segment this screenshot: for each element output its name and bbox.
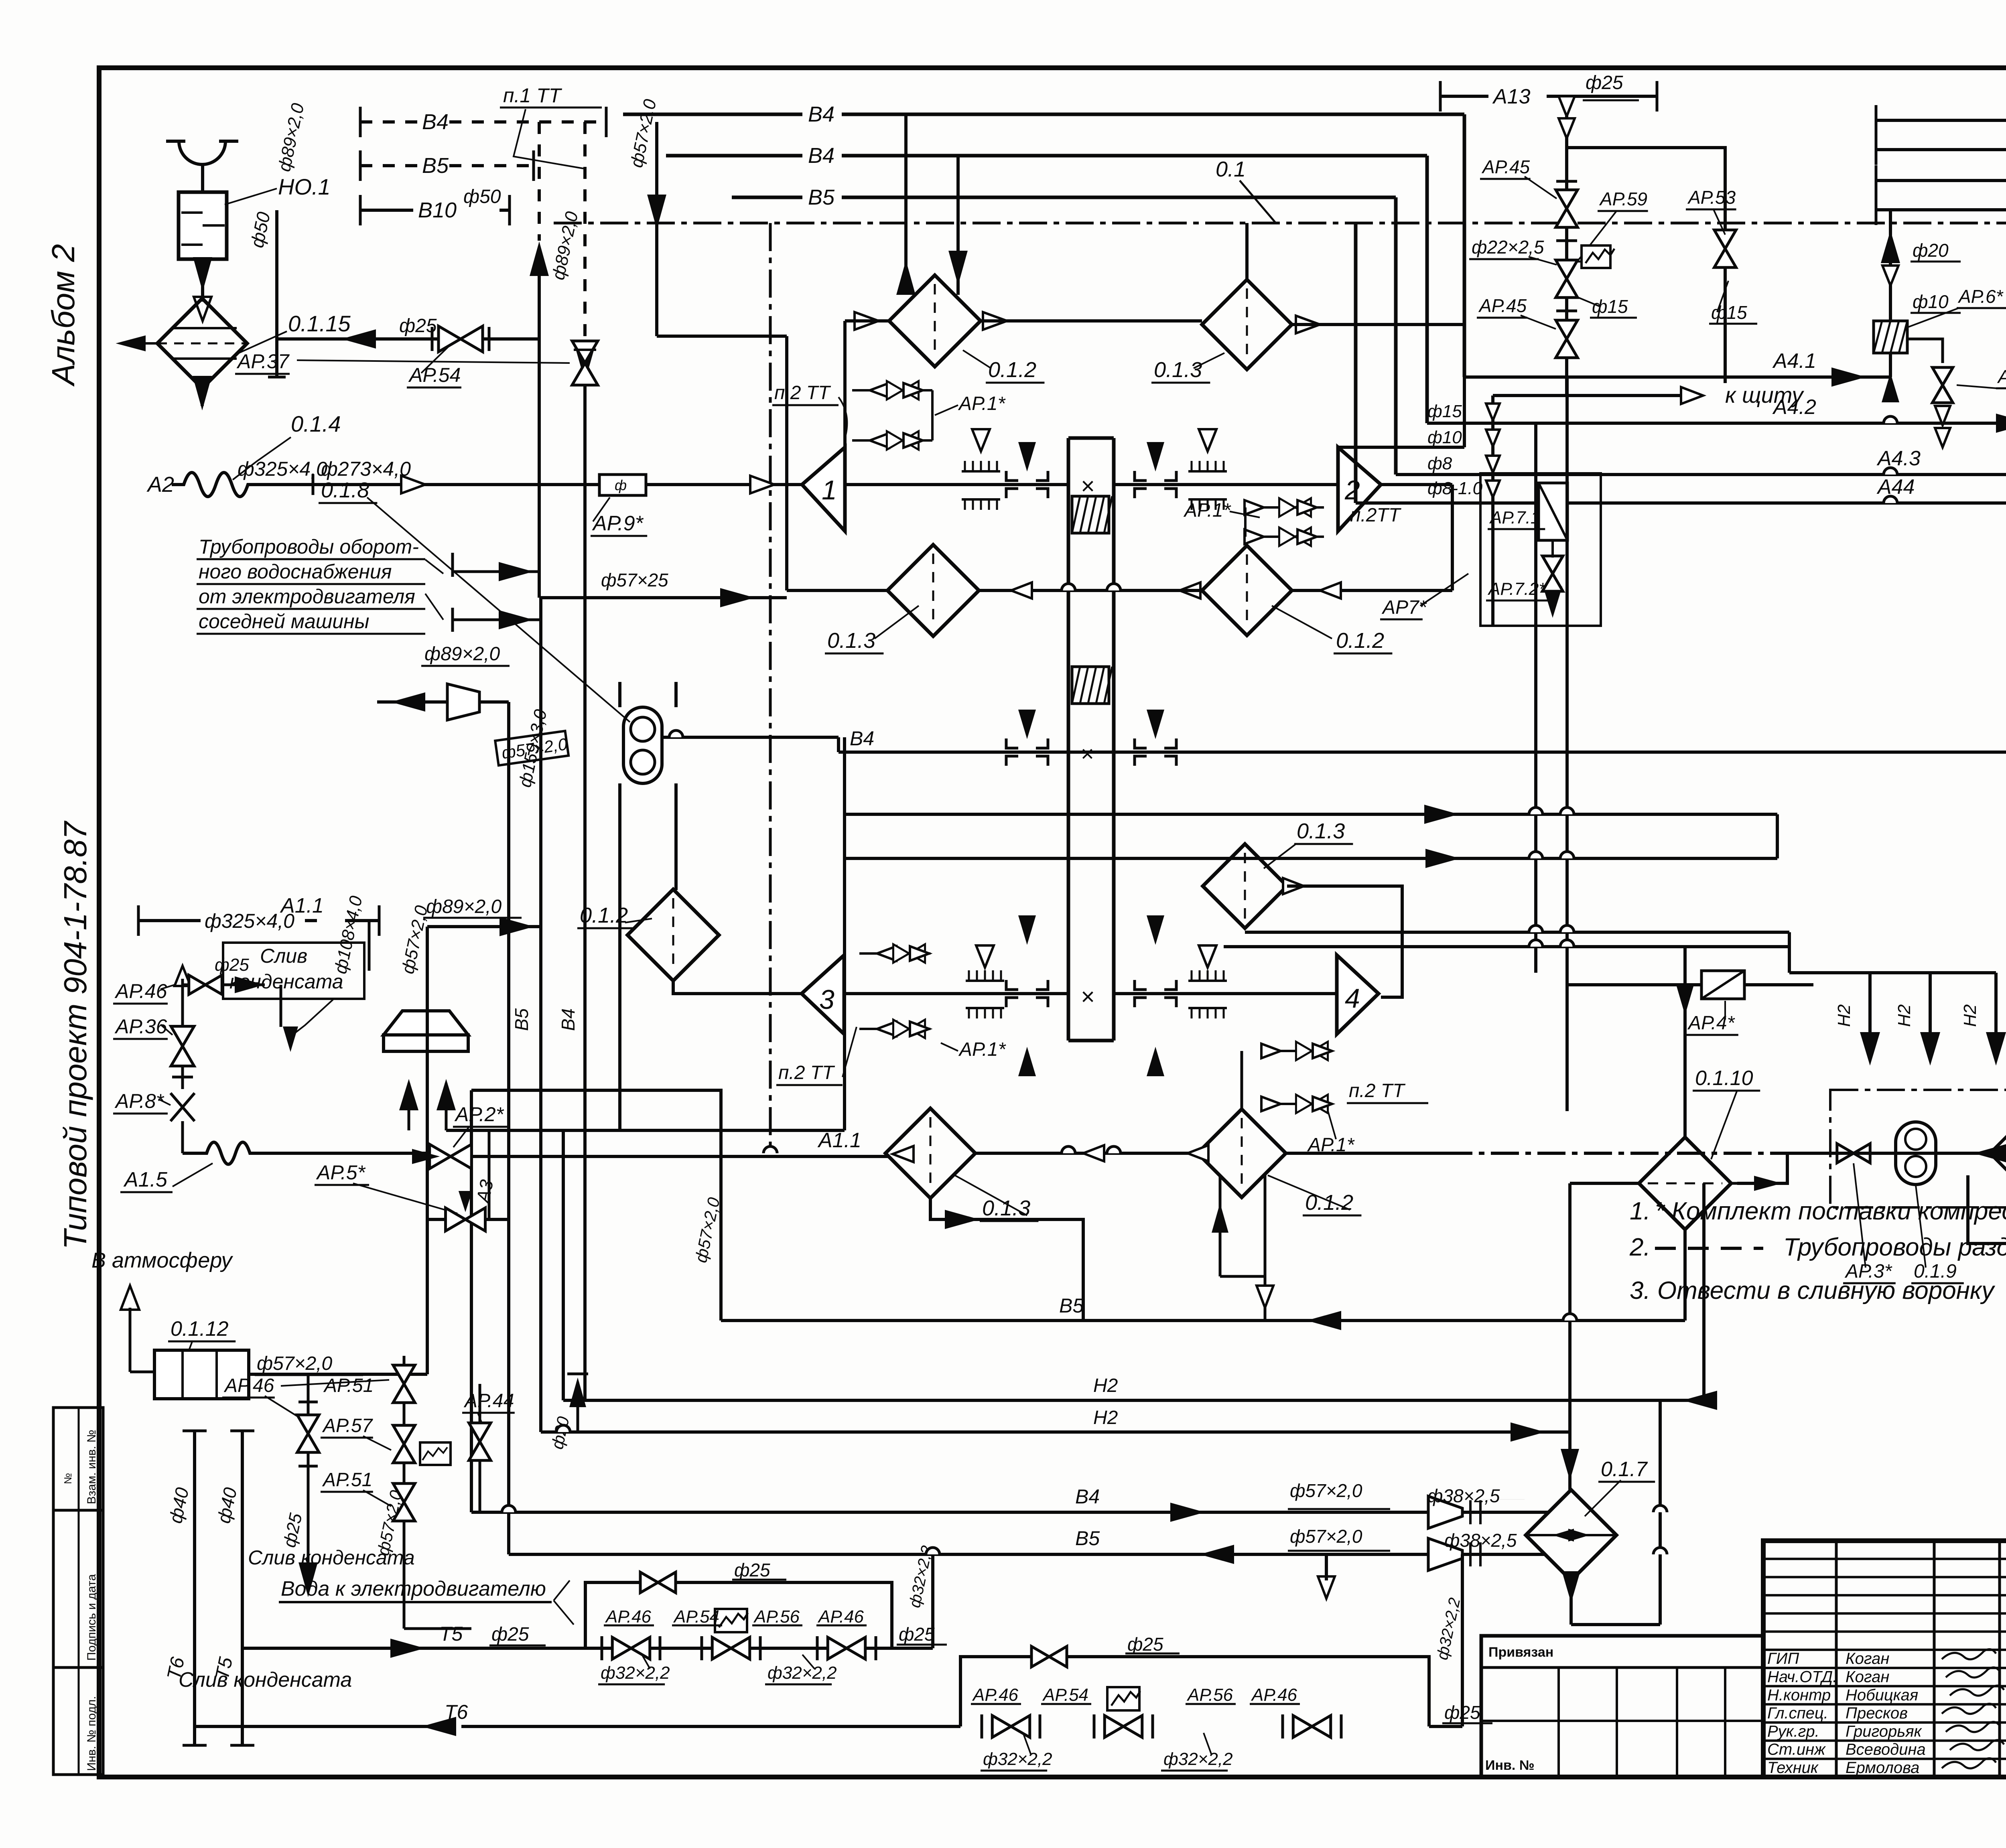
svg-text:Вода к электродвигателю: Вода к электродвигателю — [281, 1577, 546, 1601]
svg-text:АР.53: АР.53 — [1687, 187, 1736, 208]
svg-text:от электродвигателя: от электродвигателя — [199, 585, 415, 608]
svg-text:Ст.инж: Ст.инж — [1767, 1741, 1826, 1759]
svg-text:АР.4*: АР.4* — [1687, 1012, 1735, 1034]
svg-text:В4: В4 — [808, 144, 834, 168]
svg-text:АР.59: АР.59 — [1599, 189, 1647, 209]
svg-text:ф25: ф25 — [1127, 1634, 1163, 1655]
svg-text:0.1.10: 0.1.10 — [1695, 1067, 1753, 1090]
svg-text:Т6: Т6 — [445, 1701, 468, 1723]
svg-text:Техник: Техник — [1767, 1759, 1819, 1777]
svg-text:НО.1: НО.1 — [278, 174, 331, 199]
svg-text:АР.45: АР.45 — [1481, 156, 1530, 177]
svg-text:АР.1*: АР.1* — [958, 1039, 1006, 1060]
svg-text:ф38×2,5: ф38×2,5 — [1427, 1485, 1500, 1506]
svg-text:ф25: ф25 — [734, 1560, 770, 1580]
svg-text:1.: 1. — [1630, 1197, 1651, 1225]
svg-text:Альбом 2: Альбом 2 — [45, 244, 81, 387]
svg-text:0.1.3: 0.1.3 — [1154, 358, 1202, 382]
svg-text:0.1: 0.1 — [1216, 157, 1246, 181]
svg-text:АР.2*: АР.2* — [454, 1103, 504, 1126]
svg-text:АР.5*: АР.5* — [316, 1161, 366, 1184]
svg-text:0.1.4: 0.1.4 — [291, 411, 341, 436]
svg-text:АР.45: АР.45 — [1478, 295, 1527, 316]
svg-text:В5: В5 — [422, 154, 449, 178]
svg-text:Трубопроводы оборот-: Трубопроводы оборот- — [199, 536, 419, 558]
svg-text:0.1.12: 0.1.12 — [171, 1317, 229, 1341]
svg-text:0.1.3: 0.1.3 — [1297, 819, 1345, 843]
svg-text:п.2 ТТ: п.2 ТТ — [774, 382, 831, 404]
svg-text:Н2: Н2 — [1894, 1004, 1914, 1027]
svg-text:АР.7.2*: АР.7.2* — [1487, 579, 1546, 599]
svg-text:В5: В5 — [808, 185, 835, 209]
svg-text:А4.3: А4.3 — [1876, 447, 1921, 470]
svg-text:АР.46: АР.46 — [1251, 1685, 1297, 1705]
svg-text:А13: А13 — [1492, 85, 1531, 108]
svg-text:АР.8*: АР.8* — [114, 1090, 164, 1112]
svg-text:соседней машины: соседней машины — [199, 610, 369, 633]
svg-text:В4: В4 — [1075, 1485, 1100, 1508]
svg-text:АР.57: АР.57 — [322, 1415, 374, 1436]
svg-text:АР.54: АР.54 — [408, 364, 461, 386]
svg-text:0.1.15: 0.1.15 — [288, 311, 351, 336]
svg-text:ф8-1.0: ф8-1.0 — [1427, 479, 1483, 498]
svg-text:АР.56: АР.56 — [1186, 1685, 1233, 1705]
svg-text:ф25: ф25 — [1586, 72, 1623, 93]
svg-text:АР.51: АР.51 — [322, 1469, 372, 1491]
svg-text:Привязан: Привязан — [1488, 1645, 1553, 1660]
svg-text:ф32×2,2: ф32×2,2 — [767, 1663, 837, 1683]
svg-text:п.2 ТТ: п.2 ТТ — [1349, 1080, 1406, 1101]
svg-text:В10: В10 — [418, 198, 457, 222]
svg-text:ф25: ф25 — [899, 1624, 935, 1645]
svg-text:ф15: ф15 — [1711, 302, 1747, 323]
svg-text:Подпись и дата: Подпись и дата — [85, 1574, 98, 1661]
svg-text:Рук.гр.: Рук.гр. — [1767, 1722, 1819, 1740]
svg-text:Нобицкая: Нобицкая — [1846, 1686, 1918, 1704]
svg-text:В4: В4 — [558, 1008, 579, 1031]
svg-text:3. Отвести в сливную воронк: 3. Отвести в сливную воронку — [1630, 1277, 1996, 1304]
svg-text:АР.9*: АР.9* — [592, 512, 644, 535]
svg-text:ф57×25: ф57×25 — [601, 570, 668, 590]
svg-text:0.1.3: 0.1.3 — [827, 629, 875, 653]
svg-text:ф25: ф25 — [215, 955, 249, 975]
svg-text:АР.54: АР.54 — [673, 1607, 719, 1627]
svg-text:ф10: ф10 — [1913, 291, 1949, 312]
svg-text:ф50: ф50 — [463, 186, 501, 207]
svg-text:АР.36: АР.36 — [114, 1015, 167, 1038]
svg-text:АР.44: АР.44 — [463, 1390, 514, 1412]
svg-text:В атмосферу: В атмосферу — [91, 1248, 233, 1272]
svg-text:Коган: Коган — [1846, 1650, 1889, 1667]
svg-text:ф10: ф10 — [1427, 428, 1462, 447]
svg-text:ф20: ф20 — [1913, 240, 1949, 261]
svg-text:АР.1*: АР.1* — [958, 393, 1006, 414]
svg-text:Всеводина: Всеводина — [1846, 1741, 1926, 1759]
svg-text:0.1.8: 0.1.8 — [321, 478, 369, 502]
svg-text:Гл.спец.: Гл.спец. — [1767, 1704, 1828, 1722]
svg-text:АР.46: АР.46 — [114, 980, 167, 1002]
svg-text:ф25: ф25 — [491, 1624, 529, 1645]
svg-text:ф22×2,5: ф22×2,5 — [1472, 237, 1544, 258]
svg-text:Ермолова: Ермолова — [1846, 1759, 1919, 1777]
svg-text:0.1.2: 0.1.2 — [1336, 629, 1384, 653]
svg-text:ф32×2,2: ф32×2,2 — [983, 1749, 1052, 1769]
svg-text:А1.1: А1.1 — [280, 894, 324, 917]
svg-text:ф15: ф15 — [1592, 296, 1628, 317]
svg-text:АР.54: АР.54 — [1042, 1685, 1088, 1705]
svg-text:Н2: Н2 — [1960, 1004, 1980, 1027]
svg-text:4: 4 — [1345, 983, 1360, 1014]
svg-text:Григорьяк: Григорьяк — [1846, 1722, 1923, 1740]
svg-text:АР.7.1: АР.7.1 — [1489, 508, 1540, 527]
svg-text:ф57×2,0: ф57×2,0 — [1290, 1526, 1362, 1547]
svg-text:Н2: Н2 — [1093, 1375, 1118, 1396]
svg-text:А2: А2 — [146, 473, 174, 497]
svg-text:0.1.2: 0.1.2 — [988, 358, 1036, 382]
svg-text:Коган: Коган — [1846, 1668, 1889, 1686]
svg-text:Нач.ОТД.: Нач.ОТД. — [1767, 1668, 1837, 1686]
svg-text:АР.1*: АР.1* — [1997, 366, 2006, 387]
svg-text:ф89×2,0: ф89×2,0 — [426, 896, 502, 917]
svg-text:Слив конденсата: Слив конденсата — [248, 1546, 415, 1569]
svg-text:ГИП: ГИП — [1767, 1650, 1799, 1667]
svg-text:ф89×2,0: ф89×2,0 — [424, 643, 500, 665]
svg-text:ф32×2,2: ф32×2,2 — [601, 1663, 670, 1683]
svg-text:ф32×2,2: ф32×2,2 — [1163, 1749, 1233, 1769]
svg-text:В4: В4 — [808, 102, 834, 126]
svg-text:Пресков: Пресков — [1846, 1704, 1908, 1722]
svg-text:ф15: ф15 — [1427, 402, 1462, 421]
svg-text:АР.37: АР.37 — [236, 350, 290, 373]
svg-text:ф8: ф8 — [1427, 454, 1452, 473]
svg-text:к щиту: к щиту — [1725, 382, 1804, 408]
svg-text:* Комплект поставки компресс: * Комплект поставки компрессора 32ВЦ-100… — [1655, 1197, 2006, 1225]
svg-text:п.2ТТ: п.2ТТ — [1350, 505, 1402, 526]
svg-text:Слив: Слив — [260, 945, 307, 967]
svg-text:п.2 ТТ: п.2 ТТ — [778, 1062, 835, 1083]
svg-text:Взам. инв. №: Взам. инв. № — [85, 1430, 98, 1504]
svg-text:ф273×4,0: ф273×4,0 — [321, 458, 411, 480]
svg-text:АР.56: АР.56 — [753, 1607, 800, 1627]
svg-text:п.1 ТТ: п.1 ТТ — [503, 84, 562, 107]
svg-text:Слив конденсата: Слив конденсата — [179, 1668, 352, 1692]
svg-text:АР.1*: АР.1* — [1183, 500, 1231, 521]
svg-text:АР.46: АР.46 — [605, 1607, 652, 1627]
svg-text:А1.1: А1.1 — [817, 1129, 861, 1152]
svg-text:3: 3 — [819, 984, 834, 1015]
svg-text:№: № — [62, 1473, 74, 1484]
svg-text:АР.51: АР.51 — [323, 1375, 374, 1396]
svg-text:В4: В4 — [850, 727, 874, 750]
svg-text:А1.5: А1.5 — [123, 1168, 168, 1191]
svg-text:Т5: Т5 — [439, 1623, 463, 1645]
svg-text:В4: В4 — [422, 110, 449, 134]
svg-text:В5: В5 — [1059, 1294, 1084, 1317]
svg-text:АР.46: АР.46 — [817, 1607, 864, 1627]
svg-text:А44: А44 — [1876, 475, 1915, 499]
svg-text:В5: В5 — [1075, 1527, 1100, 1550]
svg-text:ф57×2,0: ф57×2,0 — [1290, 1480, 1362, 1501]
svg-text:ного водоснабжения: ного водоснабжения — [199, 560, 392, 583]
svg-text:Инв. № подл.: Инв. № подл. — [85, 1696, 98, 1771]
svg-text:ф: ф — [615, 477, 627, 493]
svg-text:Н.контр: Н.контр — [1767, 1686, 1831, 1704]
svg-text:В5: В5 — [511, 1008, 532, 1031]
svg-text:0.1.2: 0.1.2 — [580, 903, 628, 927]
svg-text:Трубопроводы раздела ВК.: Трубопроводы раздела ВК. — [1783, 1233, 2006, 1261]
svg-text:АР.46: АР.46 — [972, 1685, 1019, 1705]
svg-text:А4.1: А4.1 — [1772, 349, 1816, 373]
svg-text:2.: 2. — [1629, 1233, 1651, 1261]
svg-text:Инв. №: Инв. № — [1485, 1758, 1535, 1773]
svg-text:АР.46: АР.46 — [223, 1375, 274, 1396]
svg-text:Н2: Н2 — [1093, 1407, 1118, 1428]
svg-text:ф57×2,0: ф57×2,0 — [257, 1353, 333, 1374]
svg-text:2: 2 — [1344, 475, 1360, 505]
svg-text:Типовой проект 904-1-78.87: Типовой проект 904-1-78.87 — [57, 821, 93, 1250]
svg-text:0.1.7: 0.1.7 — [1601, 1458, 1648, 1481]
svg-text:АР7*: АР7* — [1381, 597, 1427, 618]
svg-text:×: × — [1081, 983, 1095, 1010]
svg-text:АР.6*: АР.6* — [1957, 286, 2004, 307]
svg-text:0.1.3: 0.1.3 — [982, 1196, 1030, 1220]
svg-text:1: 1 — [822, 475, 837, 505]
svg-text:Н2: Н2 — [1834, 1004, 1854, 1027]
